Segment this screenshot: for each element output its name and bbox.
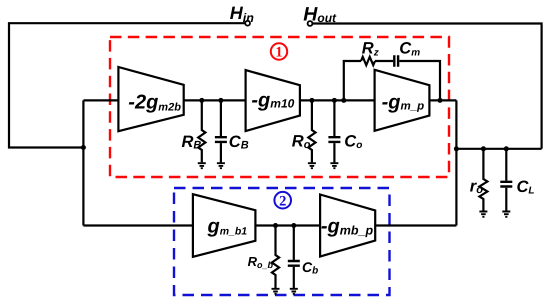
svg-text:Ro: Ro [292, 133, 311, 152]
capacitor Cm [394, 55, 398, 67]
junction Co [332, 98, 337, 103]
wire Rz to Cm [375, 60, 393, 62]
capacitor Co [328, 100, 340, 162]
blue dashed box stage 2 [174, 188, 390, 295]
ground ro [479, 212, 487, 217]
red dashed box stage 1 [110, 37, 449, 177]
node H_out [308, 21, 313, 26]
junction feedback right [438, 98, 443, 103]
op-amp -gmbp [320, 195, 375, 257]
svg-text:Cb: Cb [302, 259, 318, 277]
wire H_in lead [9, 23, 245, 147]
ground CB [217, 163, 225, 168]
resistor RB [198, 100, 205, 162]
svg-text:1: 1 [275, 44, 282, 60]
ground CL [502, 212, 510, 217]
svg-text:Rz: Rz [362, 40, 379, 59]
op-amp gmb1 [193, 194, 256, 257]
svg-text:Cm: Cm [399, 40, 420, 59]
wire feedback right [399, 61, 440, 100]
wire -gmbp output [375, 224, 456, 226]
capacitor Cb [288, 226, 300, 289]
junction RB [199, 98, 204, 103]
capacitor CB [215, 100, 227, 162]
stage number 1 [271, 43, 287, 60]
op-amp -gm10 [246, 70, 300, 131]
stage number 2 [274, 192, 291, 209]
wire -gm10 output to -gmp input [300, 99, 375, 101]
junction CB [218, 98, 223, 103]
node H_in [245, 21, 250, 26]
wire -gmp output [429, 99, 456, 101]
ground RB [198, 163, 206, 168]
resistor ro load [479, 149, 487, 211]
ground Ro [308, 163, 316, 168]
wire gmb1 input [83, 224, 192, 226]
junction Ro [309, 98, 314, 103]
resistor Rz [361, 57, 375, 65]
capacitor CL [500, 149, 512, 211]
resistor Ro [308, 100, 315, 162]
wire to -2gm2b input [83, 99, 118, 101]
svg-text:Ro_b: Ro_b [248, 254, 274, 270]
wire output vertical [455, 100, 457, 225]
wire -2gm2b output to -gm10 input [184, 99, 246, 101]
svg-text:2: 2 [279, 193, 286, 209]
svg-text:ro: ro [470, 178, 483, 197]
junction input branch [81, 145, 86, 150]
op-amp -gmp [375, 70, 430, 131]
wire gmb1 output to -gmbp input [255, 224, 320, 226]
wire H_out lead [312, 24, 541, 149]
resistor Rob [272, 226, 279, 289]
ground Cb [290, 289, 298, 294]
ground Co [330, 163, 338, 168]
ground Rob [272, 289, 280, 294]
svg-text:CB: CB [229, 133, 249, 152]
op-amp -2gm2b [118, 67, 183, 131]
wire output rail [456, 148, 541, 150]
svg-text:Hin: Hin [230, 3, 254, 25]
junction CL [504, 146, 509, 151]
junction Cb [291, 223, 296, 228]
svg-text:Co: Co [344, 133, 362, 152]
junction Rob [273, 223, 278, 228]
junction output rail left [454, 146, 459, 151]
svg-text:RB: RB [182, 133, 202, 152]
junction ro [481, 146, 486, 151]
junction feedback left [341, 98, 346, 103]
wire input branch vertical [82, 100, 84, 225]
feedback wire left [344, 61, 361, 100]
svg-text:CL: CL [517, 178, 535, 197]
